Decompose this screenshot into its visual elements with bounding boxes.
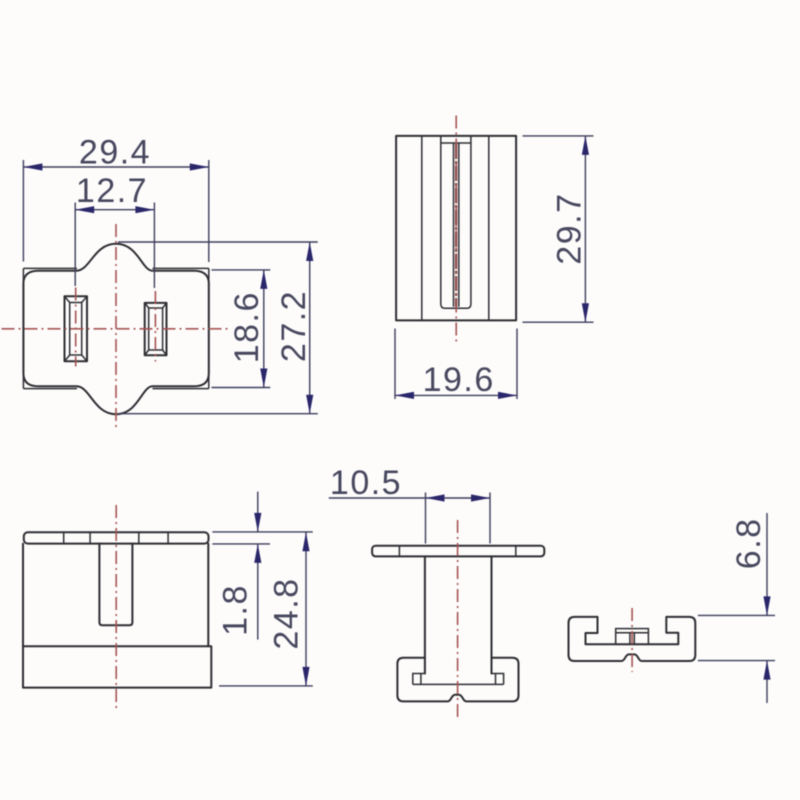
flange (rounded ends) (372, 546, 544, 557)
dimension 18.6 (212, 269, 271, 271)
view3 vertical centerline (115, 505, 117, 712)
outer rectangle (396, 136, 516, 321)
base profile outline with hooks and notch (569, 617, 696, 661)
body outline with rounded corners and top/bottom bumps (23, 244, 208, 414)
slot step line (441, 142, 471, 144)
svg-text:29.7: 29.7 (551, 193, 589, 265)
body right side (207, 544, 209, 647)
top strip (rounded ends) (24, 532, 209, 543)
right blade slot inner bevel (149, 308, 163, 350)
central slot right (633, 633, 635, 645)
dimension 19.6 (394, 329, 396, 400)
dimension 6.8 (698, 614, 775, 616)
interior floor (413, 683, 504, 685)
left blade slot inner bevel (70, 303, 82, 356)
view2 vertical centerline (455, 116, 457, 343)
right ledge (492, 674, 504, 685)
dimension 27.2 (118, 241, 318, 243)
left panel line (421, 136, 423, 321)
left ledge (413, 674, 425, 685)
dimension 29.7 (523, 135, 594, 137)
left foot line (420, 674, 422, 685)
base outline with bottom notch (397, 658, 518, 702)
right slot centerline (154, 291, 156, 362)
blade slot outline (441, 136, 471, 308)
view1 vertical centerline (115, 224, 117, 430)
svg-text:12.7: 12.7 (76, 172, 148, 210)
dimension 10.5 (425, 493, 427, 544)
right panel line (488, 136, 490, 321)
right blade slot outer (145, 303, 167, 355)
slot channel left line (453, 143, 455, 307)
flange division lines (399, 546, 515, 557)
center tab slot (99, 544, 132, 626)
dimension 24.8 (219, 685, 313, 687)
face plate rectangle (sharp corners) (23, 268, 208, 388)
svg-text:10.5: 10.5 (330, 464, 402, 502)
svg-text:29.4: 29.4 (79, 134, 151, 172)
svg-text:27.2: 27.2 (275, 290, 313, 362)
strip division lines (64, 532, 168, 543)
central block inner line (616, 632, 649, 634)
svg-text:19.6: 19.6 (423, 361, 495, 399)
dimension 12.7 (74, 203, 76, 287)
slot channel right line (458, 143, 460, 307)
view4 vertical centerline (457, 520, 459, 717)
body left side (22, 544, 24, 647)
right slot chamfer corners (145, 303, 167, 355)
stem left side (424, 556, 426, 673)
dimension 1.8 (212, 531, 312, 533)
svg-text:6.8: 6.8 (730, 517, 768, 569)
left blade slot outer (65, 296, 88, 361)
slot channel red core (455, 144, 457, 307)
right foot line (495, 674, 497, 685)
svg-text:1.8: 1.8 (217, 584, 255, 636)
bottom band (23, 646, 211, 687)
stem right side (491, 556, 493, 673)
central block (616, 629, 649, 645)
view1 horizontal centerline (2, 328, 232, 330)
central slot left (629, 633, 631, 645)
view5 vertical centerline (631, 608, 633, 672)
dimension 29.4 (22, 160, 24, 262)
left slot centerline (75, 288, 77, 367)
left slot chamfer corners (65, 296, 88, 361)
svg-text:24.8: 24.8 (268, 577, 306, 649)
svg-text:18.6: 18.6 (228, 291, 266, 363)
